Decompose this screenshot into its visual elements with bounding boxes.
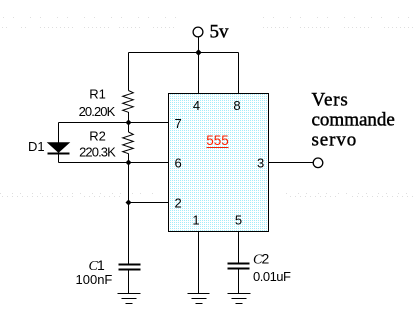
svg-text:5v: 5v <box>210 22 230 43</box>
svg-text:servo: servo <box>312 130 358 151</box>
svg-text:8: 8 <box>233 98 240 113</box>
svg-text:D1: D1 <box>28 139 45 154</box>
svg-text:Vers: Vers <box>312 90 349 111</box>
svg-text:2: 2 <box>262 251 270 267</box>
svg-text:220.3K: 220.3K <box>79 145 116 160</box>
svg-text:R1: R1 <box>89 87 106 102</box>
svg-text:1: 1 <box>192 213 199 228</box>
svg-text:7: 7 <box>175 116 182 131</box>
svg-text:5: 5 <box>235 213 242 228</box>
svg-text:1: 1 <box>97 257 105 273</box>
svg-text:20.20K: 20.20K <box>79 104 116 119</box>
svg-text:555: 555 <box>206 133 229 148</box>
svg-text:100nF: 100nF <box>76 272 113 287</box>
svg-text:commande: commande <box>312 110 395 131</box>
svg-text:2: 2 <box>175 196 182 211</box>
svg-text:4: 4 <box>193 98 200 113</box>
svg-text:3: 3 <box>257 156 264 171</box>
svg-text:R2: R2 <box>89 129 106 144</box>
svg-text:0.01uF: 0.01uF <box>253 269 291 284</box>
svg-text:6: 6 <box>175 156 182 171</box>
